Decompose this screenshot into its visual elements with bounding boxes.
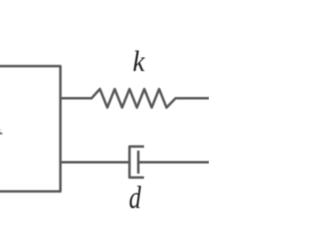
svg-text:k: k bbox=[133, 46, 145, 78]
svg-text:d: d bbox=[129, 181, 142, 209]
